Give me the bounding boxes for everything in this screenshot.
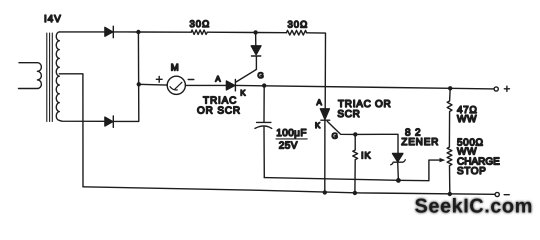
svg-text:STOP: STOP <box>457 166 486 177</box>
wire: gate junction to zener <box>355 134 398 153</box>
diode D1 <box>105 26 113 38</box>
arrow: potentiometer wiper <box>440 158 446 162</box>
node: gate/1K junction <box>353 132 357 136</box>
transformer T1 secondary winding <box>56 32 59 121</box>
wire: SCR2 cathode to bottom rail <box>324 120 326 192</box>
wire: secondary bottom lead <box>59 119 105 122</box>
capacitor C1 <box>255 86 272 178</box>
wire: left vertical bus <box>113 32 139 121</box>
svg-text:100μF: 100μF <box>276 128 307 139</box>
meter M1 <box>167 76 185 94</box>
resistor R1 30ohm <box>191 30 207 34</box>
transformer T1 primary winding <box>19 63 42 89</box>
zener diode D4 <box>391 154 406 181</box>
label + (meter) <box>156 76 162 82</box>
terminal - (output) <box>495 192 499 196</box>
wire: secondary center tap <box>59 74 83 187</box>
terminal + (output) <box>494 87 498 91</box>
wire: capacitor bottom / wiper line <box>264 160 440 181</box>
resistor R2 30ohm <box>286 30 306 35</box>
wire: R2 to SCR2 anode (corner) <box>307 33 326 109</box>
label 100uF / 25V <box>276 128 307 151</box>
SCR Q1 <box>226 80 235 91</box>
wire: R1 to R2 <box>207 31 286 34</box>
node: top-left junction <box>136 30 140 34</box>
svg-text:30Ω: 30Ω <box>288 20 309 31</box>
wire: bus to meter <box>139 83 168 86</box>
svg-text:SeekIC.com: SeekIC.com <box>415 195 533 217</box>
resistor R4 47ohm <box>447 88 452 147</box>
svg-text:A: A <box>317 98 323 107</box>
svg-text:K: K <box>240 88 246 97</box>
svg-text:I4V: I4V <box>44 14 62 25</box>
wire: bottom rail <box>83 187 495 195</box>
label - (meter) <box>188 79 194 81</box>
diode D3 (gate diode) <box>251 32 261 56</box>
potentiometer R5 500ohm <box>447 147 452 194</box>
diode D2 <box>105 116 113 128</box>
wire: SCR2 gate <box>327 121 355 134</box>
wire: meter to SCR1 <box>185 84 226 86</box>
svg-text:M: M <box>171 63 179 74</box>
svg-text:G: G <box>258 71 264 80</box>
label - (output) <box>504 194 509 196</box>
node: 47ohm junction <box>448 86 452 90</box>
svg-text:ZENER: ZENER <box>401 137 439 148</box>
label 47ohm WW <box>457 105 477 125</box>
node: 1K bottom on rail <box>353 191 357 195</box>
node: pot bottom on rail <box>448 192 452 196</box>
svg-text:OR SCR: OR SCR <box>197 105 241 116</box>
node: top-middle junction <box>253 30 257 34</box>
svg-text:WW: WW <box>457 114 477 125</box>
label 8 2 ZENER <box>401 127 439 148</box>
wire: main positive rail <box>235 85 494 89</box>
node: capacitor junction <box>262 83 266 87</box>
watermark SeekIC.com <box>415 195 533 217</box>
svg-text:A: A <box>215 75 221 84</box>
transformer core <box>47 33 53 122</box>
svg-text:K: K <box>315 121 321 130</box>
resistor R3 1K <box>353 134 358 192</box>
svg-text:G: G <box>332 131 338 140</box>
wire: secondary top lead to R1 <box>59 31 191 33</box>
svg-text:25V: 25V <box>279 140 298 151</box>
svg-text:30Ω: 30Ω <box>190 19 211 30</box>
node: meter junction <box>137 82 141 86</box>
wire: SCR1 gate <box>236 57 256 82</box>
svg-text:IK: IK <box>361 150 371 161</box>
node: zener bottom junction <box>396 178 401 183</box>
label 500ohm WW CHARGE STOP <box>457 138 500 177</box>
label + (output) <box>504 86 509 91</box>
node: SCR2 cathode on rail <box>323 190 327 194</box>
svg-text:SCR: SCR <box>337 109 360 120</box>
SCR Q2 <box>320 109 329 120</box>
